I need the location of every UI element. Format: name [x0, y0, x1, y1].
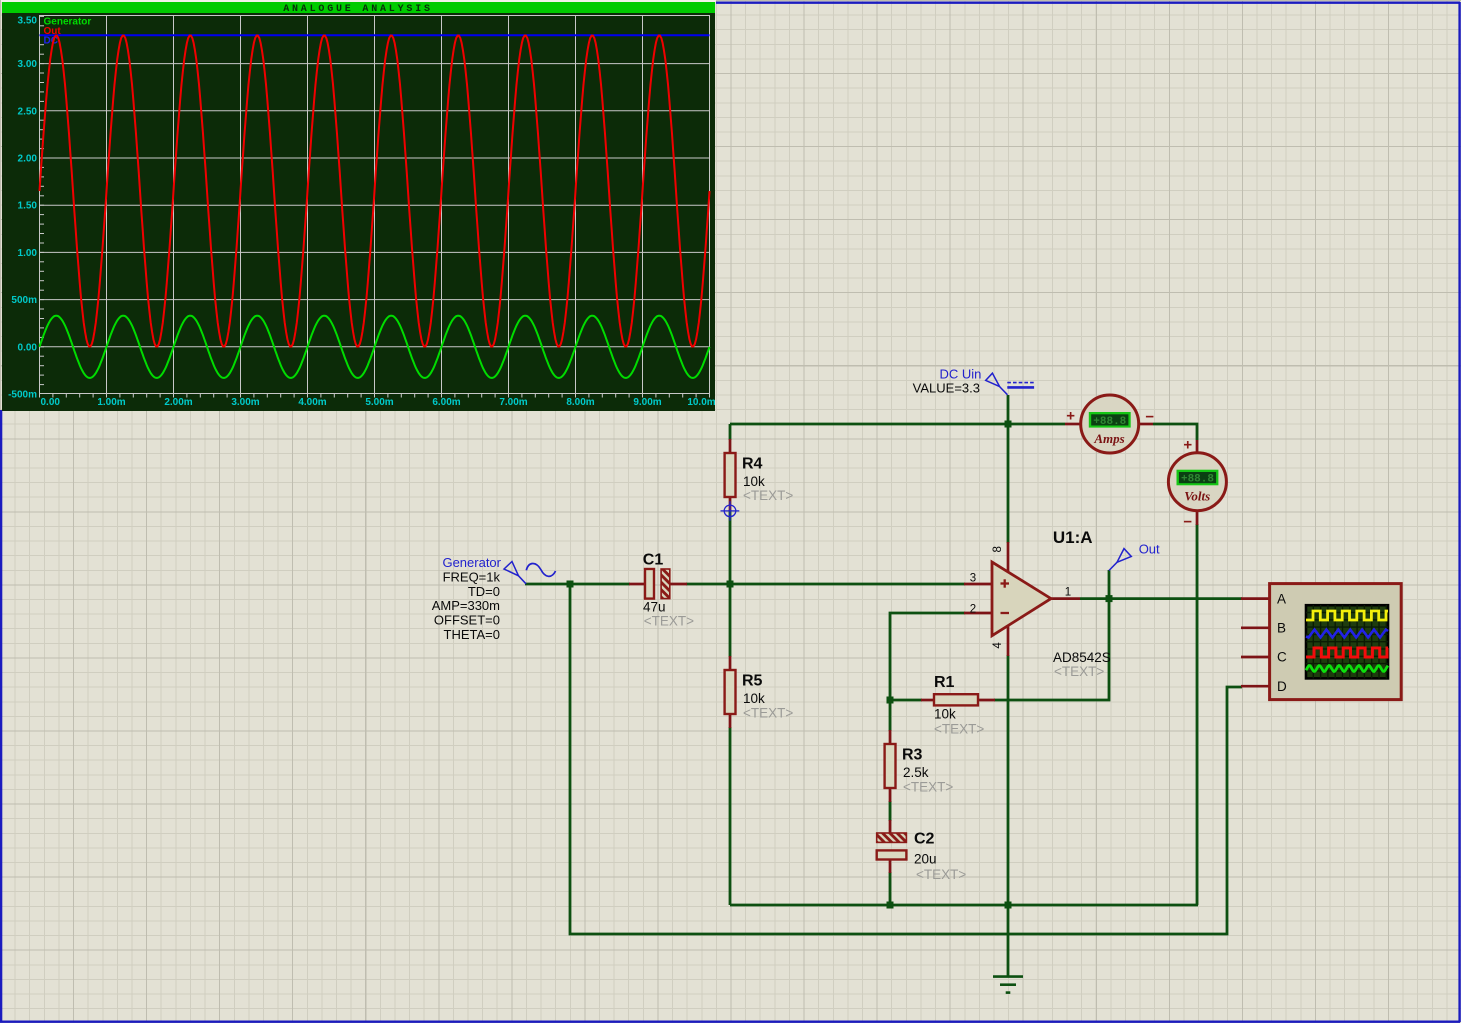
legend — [44, 17, 92, 47]
junction supply rail at DC source — [1005, 421, 1012, 428]
wire R4 top vertical — [729, 424, 732, 440]
axis labels — [8, 16, 716, 409]
svg-text:C2: C2 — [914, 831, 935, 848]
svg-text:4: 4 — [992, 642, 1004, 649]
ammeter Amps — [1065, 395, 1154, 453]
svg-text:3.00: 3.00 — [18, 59, 38, 70]
C2 top plate (hatched) — [877, 833, 907, 842]
svg-text:R3: R3 — [902, 747, 923, 764]
svg-text:<TEXT>: <TEXT> — [934, 722, 984, 737]
svg-text:+88.8: +88.8 — [1181, 474, 1214, 486]
svg-text:10.0m: 10.0m — [687, 397, 715, 408]
capacitor C1 — [629, 552, 694, 629]
svg-text:3.50: 3.50 — [18, 16, 38, 27]
op-amp pin 3 lead — [964, 583, 993, 586]
R5 body — [725, 670, 736, 714]
svg-text:TD=0: TD=0 — [468, 584, 500, 599]
wire R3 to C2 — [889, 801, 892, 821]
R5 top lead — [729, 656, 732, 671]
svg-text:+: + — [1066, 408, 1075, 425]
op-amp triangle body — [992, 562, 1051, 636]
svg-text:U1:A: U1:A — [1053, 528, 1093, 547]
svg-text:−: − — [1145, 409, 1154, 426]
wire ammeter to corner toward voltmeter — [1153, 424, 1197, 440]
wire top rail junction down to op-amp pin 8 — [1007, 424, 1010, 543]
wire R5 to bottom rail — [729, 727, 732, 905]
svg-text:0.00: 0.00 — [41, 397, 61, 408]
R3 top lead — [889, 730, 892, 745]
svg-text:<TEXT>: <TEXT> — [903, 780, 953, 795]
junction ground rail at pin4 branch — [1005, 902, 1012, 909]
op-amp pin 8 lead — [1007, 542, 1010, 572]
junction R4/R5 divider node — [727, 581, 734, 588]
R4 bottom lead — [729, 496, 732, 511]
svg-text:AMP=330m: AMP=330m — [432, 598, 500, 613]
wire Out label stub — [1108, 570, 1111, 599]
plot grid — [40, 16, 710, 398]
junction generator node — [567, 581, 574, 588]
op-amp pin 1 output lead — [1050, 597, 1080, 600]
svg-text:3.00m: 3.00m — [231, 397, 259, 408]
resistor R3 — [885, 730, 954, 802]
svg-text:C: C — [1277, 650, 1287, 665]
svg-text:8: 8 — [992, 546, 1004, 552]
R1 body — [934, 694, 978, 705]
svg-text:1.00: 1.00 — [18, 248, 38, 259]
svg-text:Volts: Volts — [1184, 489, 1210, 504]
svg-text:3: 3 — [970, 572, 976, 584]
analysis title bar — [2, 2, 715, 15]
svg-text:6.00m: 6.00m — [432, 397, 460, 408]
capacitor C2 — [877, 820, 967, 882]
svg-text:Amps: Amps — [1093, 431, 1124, 446]
origin marker — [721, 501, 740, 520]
svg-text:-500m: -500m — [8, 389, 37, 400]
svg-text:7.00m: 7.00m — [499, 397, 527, 408]
label Out — [1109, 541, 1160, 570]
svg-text:R4: R4 — [742, 456, 763, 473]
svg-text:10k: 10k — [743, 691, 765, 706]
op-amp U1:A — [964, 528, 1111, 679]
svg-text:<TEXT>: <TEXT> — [644, 614, 694, 629]
wire R1 right to feedback node — [994, 599, 1109, 700]
wire R1 left — [890, 699, 922, 702]
svg-text:<TEXT>: <TEXT> — [743, 488, 793, 503]
resistor R5 — [725, 656, 794, 728]
waveform DC 3.3V line — [40, 34, 710, 36]
wire C1 to op-amp non-inverting input — [686, 583, 965, 586]
C2 top lead — [889, 820, 892, 834]
R3 body — [885, 744, 896, 788]
svg-text:47u: 47u — [643, 600, 666, 615]
junction C2 at ground rail — [887, 902, 894, 909]
voltmeter Volts — [1168, 437, 1226, 531]
waveform Generator (green) — [40, 316, 710, 378]
svg-text:R5: R5 — [742, 673, 763, 690]
svg-text:+: + — [1183, 437, 1192, 454]
wire inverting input branch — [890, 613, 965, 700]
svg-text:<TEXT>: <TEXT> — [916, 867, 966, 882]
svg-text:1: 1 — [1065, 586, 1071, 598]
wire R1 junction down to R3 — [889, 700, 892, 731]
analysis window background — [2, 2, 715, 411]
svg-text:C1: C1 — [643, 552, 664, 569]
svg-text:2.50: 2.50 — [18, 106, 38, 117]
R3 bottom lead — [889, 787, 892, 802]
svg-text:<TEXT>: <TEXT> — [743, 705, 793, 720]
svg-text:+88.8: +88.8 — [1093, 416, 1126, 428]
junction R1/R3 inverting node — [887, 697, 894, 704]
R5 bottom lead — [729, 713, 732, 728]
label DC Uin — [913, 366, 982, 395]
svg-text:FREQ=1k: FREQ=1k — [443, 570, 501, 585]
op-amp pin 2 lead — [964, 612, 993, 615]
svg-text:B: B — [1277, 621, 1286, 636]
C1 right plate (hatched) — [661, 569, 670, 599]
svg-text:5.00m: 5.00m — [365, 397, 393, 408]
wire op-amp output to scope A — [1080, 597, 1242, 600]
resistor R4 — [725, 439, 794, 511]
svg-text:AD8542S: AD8542S — [1053, 650, 1111, 665]
ground — [993, 977, 1023, 993]
svg-text:ANALOGUE ANALYSIS: ANALOGUE ANALYSIS — [283, 4, 433, 15]
wire C2 to bottom rail — [889, 872, 892, 905]
svg-text:Generator: Generator — [442, 555, 501, 570]
wire bottom rail 1 (ground net) — [730, 904, 1198, 907]
generator Generator (sine source) — [504, 562, 556, 584]
svg-text:2: 2 — [970, 604, 976, 616]
C2 bottom lead — [889, 858, 892, 873]
op-amp pin 4 lead — [1007, 626, 1010, 656]
window top light edge — [1, 0, 716, 2]
svg-text:9.00m: 9.00m — [633, 397, 661, 408]
svg-text:1.00m: 1.00m — [97, 397, 125, 408]
C1 right lead — [670, 583, 687, 586]
C1 left lead — [629, 583, 645, 586]
waveform Out (red) — [40, 36, 710, 347]
svg-text:THETA=0: THETA=0 — [444, 627, 500, 642]
C1 left plate — [645, 569, 654, 599]
oscilloscope — [1241, 584, 1401, 700]
junction op-amp output node — [1106, 595, 1113, 602]
svg-text:8.00m: 8.00m — [566, 397, 594, 408]
svg-text:DC Uin: DC Uin — [939, 366, 981, 381]
wire DC source to top rail — [1007, 395, 1010, 424]
svg-text:10k: 10k — [743, 474, 765, 489]
op-amp + and - input marks — [1001, 579, 1010, 613]
R4 body — [725, 453, 736, 497]
wire op-amp pin 4 down to ground — [1007, 655, 1010, 977]
svg-text:R1: R1 — [934, 674, 955, 691]
R4 top lead — [729, 439, 732, 454]
svg-text:−: − — [1183, 514, 1192, 531]
svg-text:500m: 500m — [11, 295, 37, 306]
svg-text:4.00m: 4.00m — [298, 397, 326, 408]
wire generator to C1 — [525, 583, 630, 586]
svg-text:2.5k: 2.5k — [903, 765, 929, 780]
resistor R1 — [921, 674, 995, 737]
C2 bottom plate — [877, 850, 907, 859]
svg-text:A: A — [1277, 591, 1286, 606]
wire R4 to R5 vertical — [729, 510, 732, 657]
svg-text:1.50: 1.50 — [18, 201, 38, 212]
svg-text:Out: Out — [1139, 541, 1160, 556]
R1 left lead — [921, 699, 935, 702]
svg-text:OFFSET=0: OFFSET=0 — [434, 613, 500, 628]
svg-text:D: D — [1277, 679, 1287, 694]
svg-text:VALUE=3.3: VALUE=3.3 — [913, 380, 980, 395]
svg-text:0.00: 0.00 — [18, 342, 38, 353]
wire top supply rail from R4 to ammeter — [730, 423, 1065, 426]
R1 right lead — [977, 699, 995, 702]
svg-text:10k: 10k — [934, 707, 956, 722]
wire voltmeter minus down to bottom rail corner — [1196, 524, 1199, 905]
svg-text:2.00m: 2.00m — [164, 397, 192, 408]
svg-text:<TEXT>: <TEXT> — [1054, 664, 1104, 679]
svg-text:20u: 20u — [914, 852, 937, 867]
svg-text:2.00: 2.00 — [18, 154, 38, 165]
dc source DC Uin — [986, 373, 1034, 395]
label Generator parameters — [432, 555, 502, 642]
wire generator vertical and bottom rail 2 to scope D — [570, 584, 1242, 934]
